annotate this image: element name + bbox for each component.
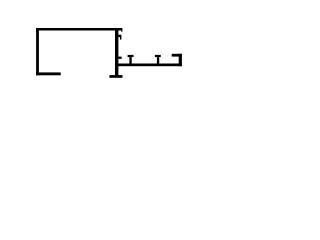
profile bottom-left flange — [36, 72, 61, 75]
right end cap top hook — [172, 54, 182, 57]
T-rib 2 stem — [157, 57, 159, 63]
profile left wall — [36, 28, 39, 75]
base foot bar — [109, 75, 122, 78]
T-rib 1 stem — [129, 57, 131, 63]
upper snap hook arm — [118, 35, 121, 37]
top wall end lip — [121, 30, 122, 31]
profile top wall — [36, 28, 122, 31]
upper snap hook descender — [120, 37, 121, 40]
middle stub tab — [118, 57, 121, 59]
right end cap vertical bar — [179, 54, 182, 66]
T-rib 1 cap — [128, 55, 134, 57]
profile main vertical web — [115, 28, 118, 76]
bottom horizontal base flange — [118, 64, 182, 67]
T-rib 2 cap — [155, 55, 161, 57]
